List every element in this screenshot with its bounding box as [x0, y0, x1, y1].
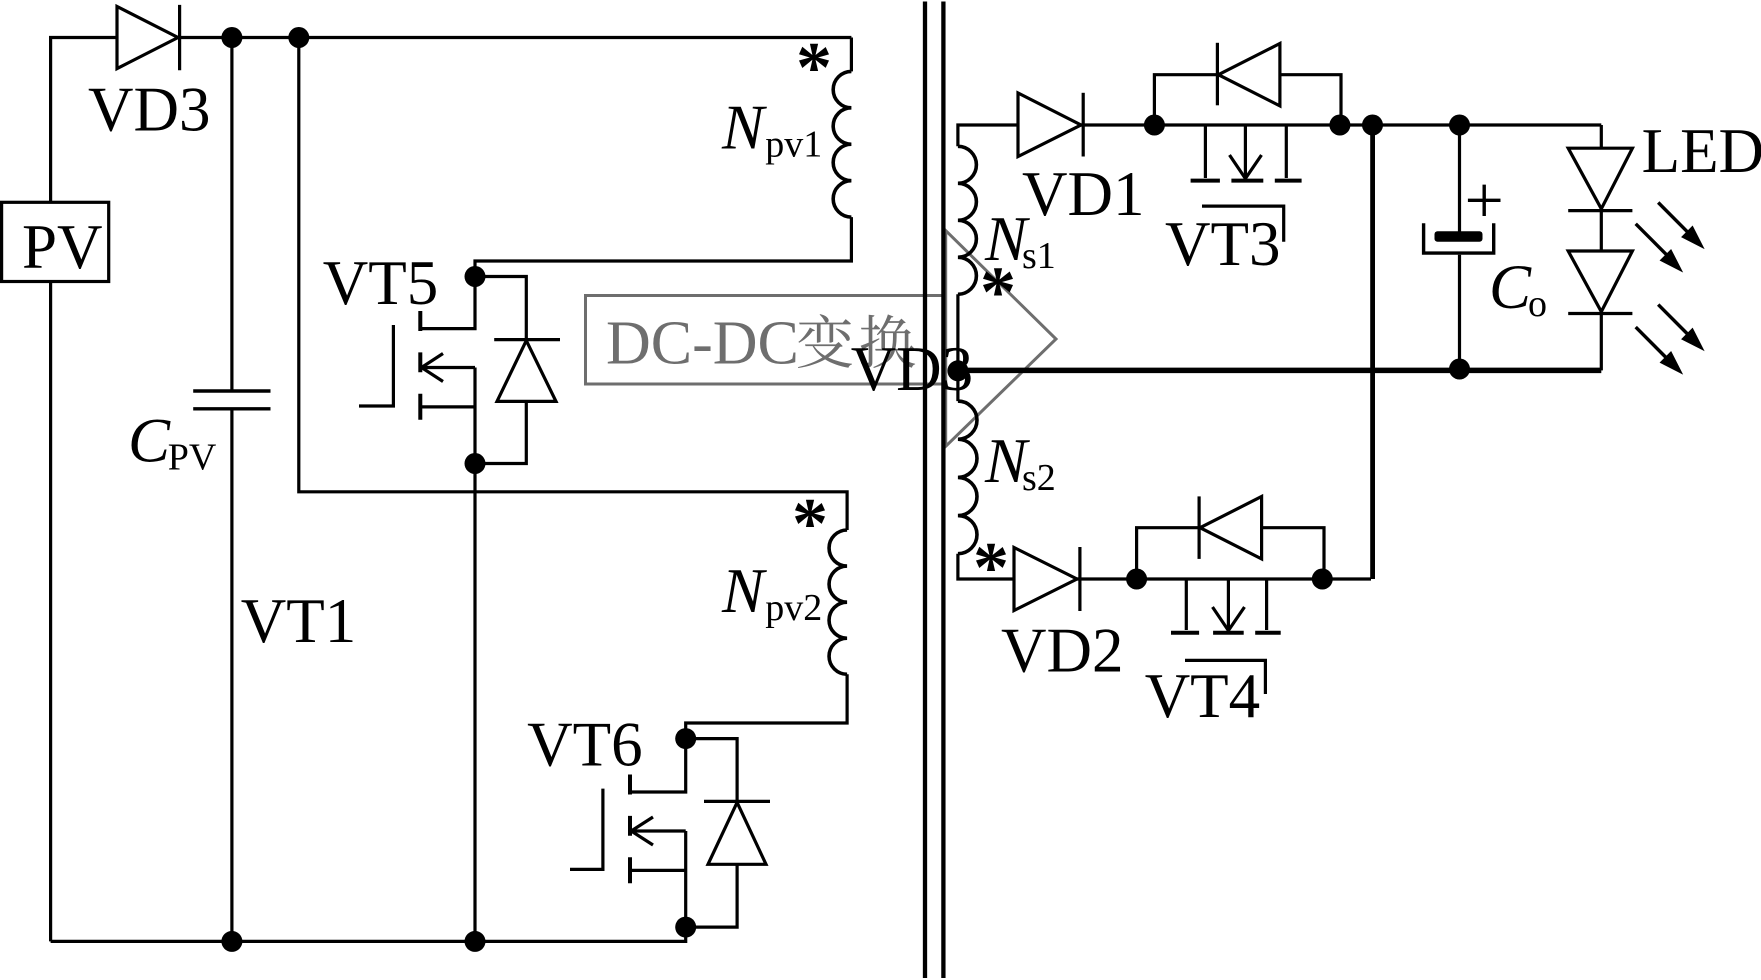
wire PV minus to bottom rail: [49, 282, 52, 942]
wire top rail to capacitor CPV: [230, 38, 233, 392]
callout text hanzi "bian" (gray): [798, 314, 852, 368]
wire secondary top rail (VD1 cathode to LED string): [1081, 123, 1601, 126]
wire capacitor CPV to bottom rail: [230, 409, 233, 942]
label Ns2: [984, 426, 1056, 499]
wire winding Npv2 to VT6 drain: [686, 674, 847, 738]
winding Ns2: [958, 401, 977, 554]
svg-text:VT3: VT3: [1165, 209, 1280, 279]
svg-text:pv1: pv1: [765, 124, 822, 166]
junction secondary center tap: [947, 360, 968, 381]
svg-text:*: *: [796, 28, 832, 108]
svg-text:s2: s2: [1022, 457, 1056, 499]
label Npv1: [721, 93, 822, 166]
junction VT6 drain: [675, 728, 696, 749]
junction LED return / Co: [1449, 359, 1470, 380]
label Co: [1489, 252, 1547, 325]
svg-text:PV: PV: [168, 437, 217, 479]
LED string (two LEDs): [1568, 125, 1632, 370]
wire winding Ns1 to center tap node: [956, 294, 959, 371]
winding Npv2: [829, 530, 847, 674]
svg-text:VT5: VT5: [323, 248, 438, 318]
winding Npv1: [833, 71, 851, 217]
svg-text:*: *: [973, 528, 1009, 608]
transistor VT3 (MOSFET): [1191, 125, 1302, 242]
LED light ray arrows: [1636, 203, 1704, 374]
svg-text:LED: LED: [1642, 116, 1761, 186]
svg-text:s1: s1: [1022, 235, 1056, 277]
diode VD3: [117, 5, 180, 70]
wire VT5 source to bottom rail: [473, 464, 476, 942]
capacitor Co (electrolytic): [1424, 185, 1501, 254]
transistor VT4 (MOSFET): [1171, 579, 1281, 694]
PV source box: [2, 202, 109, 281]
junction bottom rail / CPV: [221, 931, 242, 952]
callout text hanzi "huan" (gray): [861, 314, 916, 368]
junction bottom rail / VT5 source line: [465, 931, 486, 952]
wire center tap node to winding Ns2: [956, 371, 959, 401]
transistor VT5 (MOSFET): [359, 277, 475, 464]
junction VT6 source: [675, 917, 696, 938]
junction VD1 cathode / VT3: [1144, 115, 1165, 136]
svg-text:N: N: [721, 556, 767, 626]
label CPV: [128, 405, 217, 478]
svg-text:PV: PV: [22, 212, 103, 282]
anti-parallel diode of VT4: [1137, 496, 1324, 579]
winding Ns1: [958, 146, 977, 294]
wire center tap to LED return (thick): [958, 368, 1601, 374]
svg-text:C: C: [128, 405, 171, 475]
wire top rail to capacitor Co plus: [1458, 125, 1461, 232]
svg-text:VT1: VT1: [241, 586, 356, 656]
wire bottom rail: [51, 927, 686, 941]
wire top rail (VD3 cathode to Npv1): [178, 36, 851, 39]
junction top rail / CPV: [221, 27, 242, 48]
svg-text:VT6: VT6: [527, 710, 642, 780]
junction top rail / VT4 branch: [1362, 115, 1383, 136]
wire winding Ns2 to diode VD2 anode: [958, 554, 1014, 579]
junction VT5 drain: [465, 266, 486, 287]
diode VD1: [1018, 93, 1083, 157]
svg-text:VD1: VD1: [1022, 159, 1145, 229]
svg-text:o: o: [1528, 283, 1547, 325]
anti-parallel diode of VT3: [1154, 43, 1341, 125]
svg-text:*: *: [792, 484, 828, 564]
wire capacitor Co minus to LED return: [1458, 255, 1461, 369]
svg-text:VT4: VT4: [1145, 661, 1260, 731]
wire winding Ns1 to diode VD1 anode: [958, 125, 1018, 146]
body diode of VT5: [475, 277, 560, 464]
wire winding Npv1 to VT5 drain: [475, 217, 851, 276]
transformer T1 core: [925, 2, 943, 979]
label Npv2: [721, 556, 822, 629]
svg-text:C: C: [1489, 252, 1532, 322]
callout box "DC-DC converter" (gray): [586, 231, 1057, 447]
svg-text:VD2: VD2: [1001, 616, 1124, 686]
junction VT4 right / diode: [1312, 569, 1333, 590]
wire VT1 branch (top rail down, right to winding Npv2): [299, 38, 847, 531]
svg-text:N: N: [721, 93, 767, 163]
label Ns1: [984, 204, 1056, 277]
wire VT4 branch to secondary top rail (thick): [1370, 125, 1375, 579]
diode VD2: [1014, 547, 1080, 611]
body diode of VT6: [686, 739, 770, 928]
svg-text:DC-DC: DC-DC: [606, 310, 799, 378]
capacitor CPV: [193, 391, 270, 409]
junction VT5 source: [465, 453, 486, 474]
wire VD2 cathode to VT3/VT4 junction: [1077, 577, 1371, 580]
svg-text:pv2: pv2: [765, 587, 822, 629]
junction top rail / Co: [1449, 115, 1470, 136]
junction top rail / VT1 branch: [288, 27, 309, 48]
wire PV plus to diode VD3 anode: [51, 38, 117, 203]
wire top rail to winding Npv1: [850, 38, 853, 72]
junction VD2 cathode / VT4: [1126, 569, 1147, 590]
junction VT3 right / diode: [1329, 115, 1350, 136]
svg-text:VD3: VD3: [88, 75, 211, 145]
transistor VT6 (MOSFET): [570, 739, 686, 928]
